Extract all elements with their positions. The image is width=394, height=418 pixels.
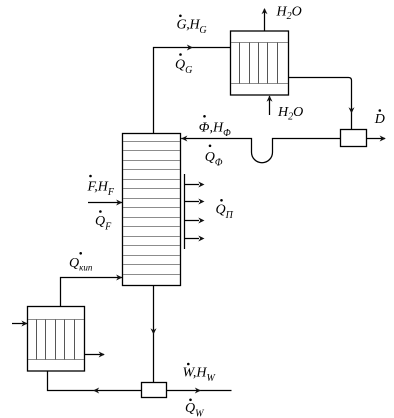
wire column top to condenser [154,48,231,134]
wire H2O outlet condenser [264,9,266,31]
arrow distillate D right [380,136,386,142]
arrow vapor return right into column [116,275,122,281]
distillate divider box [341,130,367,147]
condenser headers [231,42,288,44]
heat loss arrowhead 1 [198,182,204,188]
condenser E1 body [231,31,289,95]
heat loss arrow lines [185,184,199,186]
wire condenser outlet to distillate box [289,78,352,130]
arrow heating out right [99,352,105,358]
heat loss arrowhead 3 [198,218,204,224]
arrow bottoms W right [195,388,201,394]
reboiler tubes [37,320,75,360]
arrow left to reboiler [93,388,99,394]
wire reflux with U-seal [181,139,340,163]
column trays [123,142,180,275]
wire reboiler vapor return [61,278,123,307]
svg-text:D: D [374,112,385,127]
reboiler headers [28,319,84,321]
heat loss arrowhead 2 [198,199,204,205]
arrow down into distillate box [349,107,355,113]
wire column bottom to bottoms box [153,286,155,383]
arrow down column bottoms [151,328,157,334]
wire bottoms product out [167,390,232,392]
heat loss arrowhead 4 [198,236,204,242]
reboiler E2 body [28,307,85,372]
arrow H2O up into condenser [267,96,273,102]
condenser tubes [240,43,278,84]
bottoms divider box [142,383,167,398]
wire distillate product out [367,138,386,140]
column C1 body [123,134,181,286]
arrow H2O out up [262,8,268,14]
heat loss line [184,174,186,249]
arrow feed right into column [116,200,122,206]
arrow vapor G right [187,45,193,51]
wire feed into column [88,202,122,204]
arrow reflux left into column [181,136,187,142]
wire H2O inlet condenser [269,96,271,115]
arrow heating in right [21,321,27,327]
wire bottoms box to reboiler [48,371,142,391]
wire heating out [85,354,105,356]
wire heating in [12,323,27,325]
